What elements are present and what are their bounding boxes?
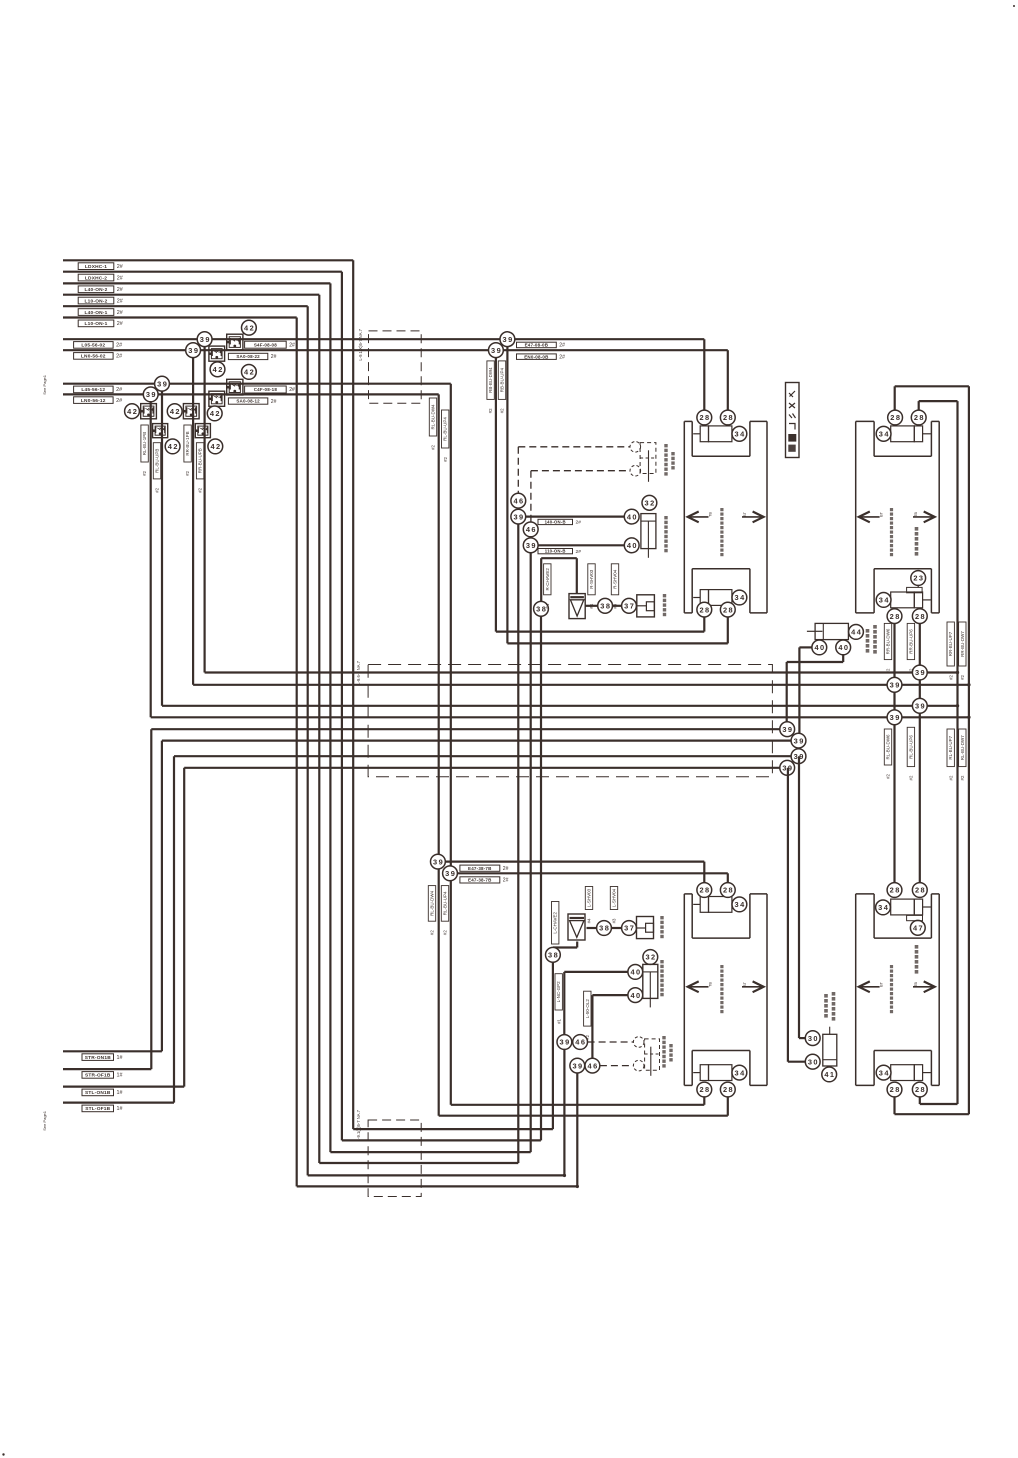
svg-text:2#: 2# — [117, 298, 123, 304]
svg-text:3 2: 3 2 — [645, 953, 655, 962]
svg-text:4 2: 4 2 — [210, 409, 220, 418]
vertical label L-SHV04 — [610, 887, 617, 910]
vertical wire label RL-BU-UP7 — [947, 729, 954, 767]
wire rear motor 40b to splice 46 below — [592, 994, 627, 996]
wire unit D bottom-right pin loop to right vertical — [919, 1097, 921, 1104]
svg-text:RL-BU-UP4: RL-BU-UP4 — [443, 891, 448, 915]
splice 39 on B3 near unit D — [912, 698, 927, 713]
label 110-ON-B — [538, 549, 573, 554]
unit C bottom inner bracket — [691, 1051, 693, 1086]
label L40-ON-2 — [78, 286, 114, 293]
nozzle 2b dashed circle — [630, 465, 641, 476]
svg-text:2#: 2# — [503, 878, 509, 884]
svg-text:#2: #2 — [886, 773, 891, 778]
label EN0-08-0B at mid splice — [517, 354, 557, 360]
svg-text:3 9: 3 9 — [513, 512, 523, 521]
connector C bottom small box — [700, 1065, 708, 1081]
wire SL-BU-GP1 lower run to unit C bottom pin 28 — [451, 1104, 705, 1106]
unit C left rail — [683, 894, 685, 1086]
connector C top large box — [709, 897, 732, 913]
splice 39 on wire4 at CV branch — [143, 387, 158, 402]
splice 42 by row2-left valve — [165, 439, 180, 454]
unit D left rail — [855, 894, 857, 1086]
rear valve name text — [660, 916, 663, 919]
svg-text:2 8: 2 8 — [915, 1085, 925, 1094]
terminal 47 circle unit D — [910, 920, 925, 935]
svg-text:2 8: 2 8 — [890, 886, 900, 895]
svg-text:SA0-08-12: SA0-08-12 — [236, 399, 260, 404]
wire CV branch x=150.7 to bus B4 — [150, 394, 152, 717]
nozzle valve 2 name text — [664, 444, 667, 447]
dashed wire to nozzle 2a — [518, 446, 630, 448]
splice 42 by row2-right valve — [208, 439, 223, 454]
check valve CV-B — [209, 346, 225, 361]
page tick top-right — [1013, 5, 1015, 7]
rear nozzle inner line — [645, 1053, 660, 1055]
bus wire B6 — [162, 739, 799, 741]
splice 39 on wire1 at CV branch — [197, 332, 212, 347]
connector B top large box — [891, 426, 915, 442]
wire 38 splice to diode — [540, 558, 542, 601]
unit B name text — [890, 508, 893, 511]
vertical wire label RL-BU-UPB — [153, 443, 160, 479]
label 140-ON-B — [538, 519, 573, 524]
svg-text:E47-08-0B: E47-08-0B — [525, 343, 549, 348]
svg-text:SA0-08-22: SA0-08-22 — [236, 354, 260, 359]
wire SD-BU-GP1 drop to unit A top pin 28 — [703, 339, 705, 410]
svg-text:R-SHV03: R-SHV03 — [589, 569, 594, 589]
unit C right arrow — [742, 986, 764, 988]
wire SD-BU-GP1 horizontal run to unit A — [63, 338, 704, 340]
wire SL-BU-GP1 vertical to lower splice 39 — [450, 384, 452, 1105]
vertical wire label RR-BU-DW7 — [959, 622, 966, 666]
rear washer valve block — [637, 917, 654, 939]
connector pass-through dashed box lower-left — [368, 1120, 421, 1197]
wire B8 splice down to stop switch pin 30 bottom — [787, 768, 789, 1062]
label SD-BU-GP1 — [74, 342, 114, 349]
svg-text:2#: 2# — [116, 343, 122, 349]
svg-text:R-CHAVE2: R-CHAVE2 — [545, 568, 550, 591]
svg-text:#2: #2 — [198, 487, 203, 492]
washer motor stem — [647, 549, 649, 558]
component 44 left stub — [807, 630, 823, 632]
svg-text:3 4: 3 4 — [879, 596, 890, 605]
svg-text:RR-BU-DW7: RR-BU-DW7 — [960, 631, 965, 657]
pins 28/28 unit D bottom — [887, 1082, 902, 1097]
svg-text:2 8: 2 8 — [699, 1085, 709, 1094]
svg-text:4 0: 4 0 — [627, 512, 637, 521]
svg-text:TB: TB — [914, 982, 918, 987]
wire rear nozzle feed x=564.4 — [563, 1049, 565, 1175]
junction B3-V957 — [956, 704, 959, 707]
washer valve block top — [637, 595, 655, 617]
splice 38 rear feed — [546, 947, 561, 962]
svg-text:4 6: 4 6 — [513, 496, 523, 505]
label SA0-08-12 by CV-D — [228, 398, 267, 404]
connector 34 circle unit D bottom — [876, 1065, 891, 1080]
svg-text:4 0: 4 0 — [627, 541, 637, 550]
svg-text:3 9: 3 9 — [794, 736, 804, 745]
svg-text:4 6: 4 6 — [588, 1061, 598, 1070]
svg-text:3 7: 3 7 — [624, 924, 634, 933]
svg-text:#2: #2 — [960, 674, 965, 679]
rear motor stem — [649, 998, 651, 1007]
stop switch body — [823, 1034, 837, 1066]
wire CV branch x=193 to bus B2 — [192, 350, 194, 685]
bus wire B4 — [151, 716, 969, 718]
splice 38 valve row — [598, 598, 613, 613]
svg-text:3 8: 3 8 — [599, 924, 609, 933]
svg-text:2#: 2# — [559, 343, 565, 349]
check valve row2 right — [195, 424, 210, 438]
svg-text:4 1: 4 1 — [824, 1070, 834, 1079]
relay pin 40 right — [836, 640, 851, 655]
svg-text:L-CHAVE2: L-CHAVE2 — [553, 911, 558, 933]
terminal 41 — [822, 1067, 837, 1082]
splice 42 below CV-B — [210, 362, 225, 377]
unit A left arrow — [688, 516, 709, 518]
rear motor pin 40 bottom — [628, 988, 643, 1003]
vertical label L-CHAVE2 — [552, 902, 559, 945]
wire diode to 38 — [585, 605, 598, 607]
label SL-BU-GP1 — [74, 386, 114, 393]
splice 39 pump circuit a — [511, 509, 526, 524]
connector A top large box — [709, 426, 732, 442]
svg-text:L45-56-12: L45-56-12 — [81, 387, 105, 393]
splice 38 rear valve row — [597, 921, 612, 936]
svg-text:3 4: 3 4 — [879, 430, 890, 439]
svg-text:L40-ON-1: L40-ON-1 — [85, 310, 108, 316]
svg-text:BT: BT — [880, 511, 884, 517]
svg-text:2#: 2# — [576, 549, 582, 555]
washer motor pin 40 bottom — [624, 538, 639, 553]
splice 39 on wire3 at CV branch — [155, 376, 170, 391]
wire RB-BU-DW4 run to unit A pin 28 bottom-left — [496, 630, 704, 632]
splice 39 on B4 near unit D — [887, 710, 902, 725]
svg-text:4 2: 4 2 — [210, 442, 220, 451]
vertical wire label RL-BU-DW4 upper — [429, 398, 436, 436]
vertical label R-CHAVE2 — [544, 564, 551, 595]
svg-text:3 4: 3 4 — [735, 1068, 746, 1077]
junction B1-V957 — [956, 671, 959, 674]
wire SL-BU-GP1 horizontal run — [63, 383, 451, 385]
svg-text:2 3: 2 3 — [913, 574, 923, 583]
wire 38 to 37 — [613, 605, 622, 607]
wire SR-BU-GP2 horizontal run to unit A — [63, 349, 728, 351]
svg-text:RL-BU-UP4: RL-BU-UP4 — [443, 417, 448, 441]
wire L10-ON-2 horizontal run — [63, 294, 319, 296]
svg-text:RR-BU-1PB: RR-BU-1PB — [185, 431, 190, 455]
connector C bottom left stub — [693, 1072, 700, 1074]
wire RB-BU-DW4 vertical x=495.9 — [495, 350, 497, 631]
svg-text:TB: TB — [914, 512, 918, 517]
svg-text:4 0: 4 0 — [814, 643, 824, 652]
svg-text:3 2: 3 2 — [645, 499, 655, 508]
check valve CV-A — [227, 334, 243, 350]
svg-text:3 9: 3 9 — [915, 702, 925, 711]
pins 28/28 unit B bottom — [887, 609, 902, 624]
svg-text:#2: #2 — [500, 408, 505, 413]
splice 42 below CV-D — [207, 406, 222, 421]
wire pump feed x=518.3 down to crossover — [517, 517, 519, 1163]
svg-text:1#: 1# — [117, 1090, 123, 1096]
diode box top cluster — [569, 594, 585, 619]
stop switch stem — [829, 1027, 831, 1035]
unit B top edge stubs — [856, 420, 874, 422]
svg-text:3 9: 3 9 — [188, 346, 198, 355]
wire STL-ON1B horizontal run — [63, 1085, 184, 1087]
wire L40-ON-2 vertical drop — [329, 283, 331, 1152]
wire B7 splice down to stop switch pin 30 top — [798, 756, 800, 1038]
connector A bottom large box — [709, 590, 732, 606]
svg-text:#2: #2 — [948, 775, 953, 780]
wire L10-ON-1 horizontal run — [63, 316, 297, 318]
svg-text:2#: 2# — [116, 354, 122, 360]
unit A bottom edge stubs — [684, 612, 692, 614]
wire L10-ON-2 vertical drop — [318, 295, 320, 1163]
pins 28/28 unit A top — [697, 410, 712, 425]
wire RB-BU-UP4 run to unit A pin 28 bottom-right — [507, 642, 727, 644]
wire STL-ON1B riser to bus — [183, 768, 185, 1087]
relay name text — [866, 629, 870, 633]
svg-text:2 8: 2 8 — [723, 413, 733, 422]
svg-text:3 9: 3 9 — [157, 379, 167, 388]
label E47-08-0B at mid splice — [517, 342, 557, 348]
unit D right rail — [938, 894, 940, 1086]
rear nozzle dashed rect — [645, 1039, 660, 1070]
bus wire B7 — [174, 755, 799, 757]
svg-text:RL-BU-1PB: RL-BU-1PB — [142, 432, 147, 456]
svg-text:EN0-08-0B: EN0-08-0B — [524, 354, 549, 359]
connector B bottom right stub — [923, 599, 931, 601]
svg-text:2#: 2# — [116, 387, 122, 393]
check valve CV-C — [227, 379, 243, 395]
svg-text:4 0: 4 0 — [630, 968, 640, 977]
svg-text:RR-BU-UP6: RR-BU-UP6 — [908, 629, 913, 654]
svg-text:3 8: 3 8 — [600, 602, 610, 611]
svg-text:3 9: 3 9 — [560, 1038, 570, 1047]
svg-text:4 2: 4 2 — [127, 407, 137, 416]
rear motor id 32 — [643, 950, 658, 965]
wire SL-BU-GP2 lower run to unit C bottom pin 28 — [439, 1115, 728, 1117]
svg-text:RL-BU-DW4: RL-BU-DW4 — [431, 404, 436, 429]
svg-text:4 6: 4 6 — [575, 1038, 585, 1047]
svg-text:3 9: 3 9 — [782, 725, 792, 734]
svg-text:#2: #2 — [488, 408, 493, 413]
pins 28/28 unit B top — [888, 410, 903, 425]
splice 46 nozzle circuit a — [511, 493, 526, 508]
label E47-38-7B b — [460, 877, 500, 883]
unit C right rail — [766, 894, 768, 1086]
vertical wire label RL-BU-DW7 — [959, 729, 966, 767]
svg-text:RL-BU-DW7: RL-BU-DW7 — [960, 735, 965, 760]
svg-text:RB-BU-DW4: RB-BU-DW4 — [488, 367, 493, 393]
svg-text:2 8: 2 8 — [699, 886, 709, 895]
svg-text:LN0-56-12: LN0-56-12 — [81, 398, 106, 404]
svg-text:4 0: 4 0 — [838, 643, 848, 652]
rear nozzle b dashed circle — [633, 1060, 644, 1071]
check valve row1 left — [141, 404, 157, 419]
vertical wire label RR-BU-UP7 — [947, 622, 954, 666]
connector C top left stub — [693, 903, 700, 905]
svg-text:110-ON-B: 110-ON-B — [545, 549, 566, 554]
splice 46 rear nozzle a — [573, 1035, 588, 1050]
unit B bottom inner bracket — [873, 569, 875, 613]
connector A top small box — [700, 426, 708, 442]
unit D top edge stubs — [856, 893, 874, 895]
terminal 23 link box — [917, 585, 919, 587]
connector pass-through dashed box upper-left — [369, 331, 422, 403]
splice 42 left of row1-left valve — [125, 404, 140, 419]
vertical wire label RB-BU-DW4 — [487, 361, 494, 400]
relay id 44 circle — [849, 625, 864, 640]
svg-text:2#: 2# — [117, 287, 123, 293]
label SA0-08-22 by CV-B — [228, 353, 267, 359]
vertical wire label RL-BU-1PB — [141, 425, 148, 462]
vertical wire label RR-BU-UPB — [196, 443, 203, 479]
svg-text:RL-BU-UP7: RL-BU-UP7 — [948, 735, 953, 759]
wire L40-ON-2 bottom crossover to riser — [330, 1151, 530, 1153]
splice 46 nozzle circuit b — [523, 522, 538, 537]
svg-text:3 9: 3 9 — [915, 668, 925, 677]
svg-text:4 2: 4 2 — [244, 368, 254, 377]
wire L10-ON-2 bottom crossover to riser — [319, 1162, 518, 1164]
unit B right rail — [938, 421, 940, 613]
vertical wire label RL-BU-UP4 upper — [442, 410, 449, 448]
svg-text:2 8: 2 8 — [723, 886, 733, 895]
wire STR-ON1B horizontal run — [63, 1050, 162, 1052]
svg-text:RL-BU-UP6: RL-BU-UP6 — [908, 735, 913, 759]
vertical wire label RL-BU-UP6 — [907, 727, 914, 766]
connector A bottom small box — [700, 590, 708, 606]
unit D top inner bracket — [873, 894, 875, 938]
splice 37 valve row — [622, 598, 637, 613]
wire unit D bottom-left pin loop to right vertical — [893, 1097, 895, 1114]
svg-text:1#: 1# — [117, 1106, 123, 1112]
svg-text:#2: #2 — [948, 674, 953, 679]
svg-text:2 8: 2 8 — [890, 1085, 900, 1094]
svg-text:E47-38-7B: E47-38-7B — [468, 878, 492, 883]
svg-text:3 8: 3 8 — [548, 951, 558, 960]
vertical label RL-BU-UP4 — [441, 886, 448, 922]
svg-text:#4: #4 — [545, 603, 550, 608]
svg-text:4 7: 4 7 — [913, 924, 923, 933]
splice 39 on wire2 at CV branch — [186, 343, 201, 358]
check valve CV-D — [209, 391, 225, 406]
wire unit B top-left pin loop over to right vertical — [894, 386, 896, 410]
svg-text:#2: #2 — [960, 775, 965, 780]
wire CV branch x=204.6 to bus B1 — [204, 339, 206, 672]
connector D top small box — [914, 899, 922, 915]
label STR-ON1B — [82, 1054, 114, 1061]
unit B top inner bracket — [873, 421, 875, 456]
unit C top edge stubs — [684, 893, 692, 895]
svg-text:L40-ON-2: L40-ON-2 — [85, 287, 108, 293]
unit A top inner bracket — [691, 421, 693, 456]
svg-text:4 2: 4 2 — [170, 407, 180, 416]
wire STL-OF1B riser to bus — [173, 756, 175, 1102]
label STL-OF1B — [82, 1105, 114, 1112]
svg-text:2#: 2# — [271, 399, 277, 405]
svg-text:3 9: 3 9 — [572, 1061, 582, 1070]
wire L10-ON-1 vertical drop — [296, 318, 298, 1187]
rear nozzle name text — [660, 960, 663, 963]
wire lower 39b to unit C top pin 28 — [457, 872, 727, 874]
svg-text:RR-BU-DW6: RR-BU-DW6 — [886, 628, 891, 654]
splice 39 on B1 near unit B — [912, 665, 927, 680]
rear washer motor body — [643, 964, 658, 998]
svg-text:3 4: 3 4 — [879, 1068, 890, 1077]
wire rear motor 40a to splice 39 below — [564, 971, 628, 973]
terminal 47 link box — [907, 915, 923, 920]
svg-text:E47-38-7B: E47-38-7B — [468, 866, 492, 871]
motor id 32 — [642, 495, 657, 510]
unit B left arrow — [859, 516, 880, 518]
svg-text:2#: 2# — [289, 342, 295, 348]
connector 34 circle unit D top — [876, 900, 891, 915]
connector 34 circle unit B bottom — [876, 593, 891, 608]
svg-text:RL-BU-UPB: RL-BU-UPB — [155, 449, 160, 473]
unit D bottom edge stubs — [856, 1084, 874, 1086]
svg-text:#2: #2 — [886, 668, 891, 673]
bus wire B1 — [205, 671, 958, 673]
svg-text:STL-ON1B: STL-ON1B — [85, 1090, 111, 1096]
svg-text:C4F-08-18: C4F-08-18 — [254, 387, 278, 392]
svg-text:LDXHC-1: LDXHC-1 — [85, 264, 107, 270]
svg-text:S4F-08-08: S4F-08-08 — [254, 342, 277, 347]
wire unit B bottom-left pin down to unit D top-left pin — [893, 624, 895, 883]
splice 42 left of row1-right valve — [167, 404, 182, 419]
svg-text:#2: #2 — [443, 456, 448, 461]
unit A right arrow — [742, 516, 764, 518]
svg-text:1#: 1# — [117, 1055, 123, 1061]
label SR-BU-GP2 — [74, 353, 114, 360]
wire 39b to motor pin 40 — [538, 544, 624, 546]
svg-text:R-SHV04: R-SHV04 — [613, 569, 618, 589]
wire L40-ON-1 horizontal run — [63, 305, 308, 307]
nozzle 2 stem — [648, 450, 650, 482]
svg-text:L-50-OL2: L-50-OL2 — [585, 999, 590, 1019]
wire rear valve feed x=552.9 — [552, 962, 554, 1129]
check valve row2 left — [153, 424, 168, 438]
pins 28/28 unit A bottom — [697, 602, 712, 617]
svg-text:#3: #3 — [613, 603, 618, 608]
svg-text:3 9: 3 9 — [890, 681, 900, 690]
splice 37 rear valve row — [622, 921, 637, 936]
wire LDXHC-1 vertical drop — [352, 260, 354, 1129]
splice 38 washer valve — [534, 601, 549, 616]
splice 39 lower-left a — [431, 854, 446, 869]
label L10-ON-1 — [78, 320, 114, 327]
svg-text:2#: 2# — [117, 321, 123, 327]
svg-text:3 9: 3 9 — [146, 390, 156, 399]
unit B sub name text — [915, 527, 919, 531]
svg-text:2#: 2# — [117, 264, 123, 270]
dashed wire to rear nozzle b — [600, 1065, 633, 1067]
wire pump feed x=530.7 down to crossover — [530, 545, 532, 1152]
unit D bottom inner bracket — [873, 1051, 875, 1086]
svg-text:#2: #2 — [443, 930, 448, 935]
vertical label RL-BU-DW4 — [428, 886, 435, 922]
splice 39 on wire1 at mid vertical — [500, 332, 515, 347]
nozzle 2 inner line — [640, 457, 656, 459]
svg-text:L-9.1(L)5-7 NA.7: L-9.1(L)5-7 NA.7 — [356, 1109, 361, 1141]
connector B bottom small box — [914, 592, 922, 608]
connector D top right stub — [923, 906, 931, 908]
wire STR-OF1B riser to bus — [150, 729, 152, 1069]
label LDXHC-1 — [78, 263, 114, 270]
connector D bottom large box — [891, 1065, 915, 1081]
